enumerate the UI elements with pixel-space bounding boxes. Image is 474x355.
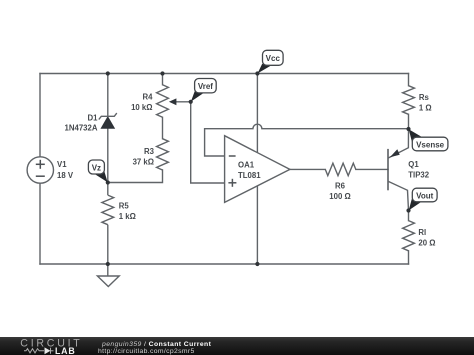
wire sense feedback with hop to inverting input <box>205 124 409 156</box>
node junction Vout <box>406 208 410 212</box>
resistor R3 <box>133 139 169 170</box>
resistor Rl <box>403 221 436 251</box>
wire zener branch lower <box>107 128 109 182</box>
wire Rl to bottom rail <box>408 251 410 264</box>
svg-text:100 Ω: 100 Ω <box>329 192 350 201</box>
svg-text:LAB: LAB <box>55 346 75 355</box>
svg-text:Rl: Rl <box>418 228 426 237</box>
node junction ground <box>106 262 110 266</box>
svg-text:R5: R5 <box>119 202 130 211</box>
svg-text:20 Ω: 20 Ω <box>418 239 435 248</box>
svg-text:Vout: Vout <box>416 191 434 200</box>
ground <box>97 264 119 287</box>
svg-text:TL081: TL081 <box>238 171 261 180</box>
resistor R5 <box>102 183 136 265</box>
svg-text:http://circuitlab.com/cp2smr5: http://circuitlab.com/cp2smr5 <box>98 348 195 355</box>
zener diode D1 <box>65 113 117 132</box>
voltage source V1 <box>27 157 74 183</box>
wire Vcc to op-amp V+ pin <box>256 74 258 153</box>
node junction Vz <box>106 180 110 184</box>
node junction top R4 <box>160 71 164 75</box>
svg-text:1N4732A: 1N4732A <box>65 123 98 132</box>
svg-text:Vsense: Vsense <box>416 140 445 149</box>
transistor Q1 <box>388 129 430 211</box>
wire R4-R3 link <box>162 117 164 138</box>
flag Vref <box>191 79 216 102</box>
wire op-amp output to R6 <box>290 168 325 170</box>
wire Rs top lead <box>408 74 410 86</box>
flag Vcc <box>258 50 284 73</box>
wire zener branch upper <box>107 74 109 117</box>
node junction Vsense <box>406 127 410 131</box>
svg-text:R6: R6 <box>335 181 346 190</box>
svg-text:18 V: 18 V <box>57 171 74 180</box>
svg-text:Vref: Vref <box>198 82 213 91</box>
node junction Vcc <box>255 71 259 75</box>
flag Vsense <box>409 129 448 151</box>
svg-text:TIP32: TIP32 <box>408 170 429 179</box>
svg-text:R3: R3 <box>144 147 155 156</box>
wire left rail lower <box>39 183 41 264</box>
wire bottom rail <box>40 263 409 265</box>
node junction top zener <box>106 71 110 75</box>
svg-text:Rs: Rs <box>419 93 430 102</box>
wire wiper to op-amp noninverting input <box>191 102 225 183</box>
wire collector to Rl <box>408 211 410 221</box>
svg-text:V1: V1 <box>57 160 67 169</box>
wire R6 to Q1 base <box>356 168 388 170</box>
resistor R6 <box>325 163 356 201</box>
wire Rs to Vsense node <box>408 114 410 129</box>
logo resistor-diode glyph <box>24 348 54 354</box>
flag Vout <box>409 188 437 210</box>
svg-text:penguin359 / Constant Current: penguin359 / Constant Current <box>101 341 212 348</box>
svg-text:37 kΩ: 37 kΩ <box>133 157 154 166</box>
node junction op-amp V- rail <box>255 262 259 266</box>
wire R3 bottom to node Vz <box>108 170 163 183</box>
wire R4 top lead <box>162 74 164 85</box>
potentiometer R4 <box>131 85 191 118</box>
footer bar <box>0 337 474 355</box>
svg-text:1 kΩ: 1 kΩ <box>119 212 136 221</box>
wire left rail upper <box>39 74 41 157</box>
svg-text:OA1: OA1 <box>238 160 255 169</box>
svg-text:1 Ω: 1 Ω <box>419 104 432 113</box>
op-amp OA1 <box>225 136 290 203</box>
svg-text:Q1: Q1 <box>408 160 419 169</box>
flag Vz <box>88 160 107 182</box>
svg-text:D1: D1 <box>88 113 99 122</box>
resistor Rs <box>403 86 432 115</box>
wire op-amp V- pin to bottom rail <box>256 186 258 264</box>
svg-text:Vz: Vz <box>92 164 101 173</box>
wire top rail <box>40 73 409 75</box>
svg-text:10 kΩ: 10 kΩ <box>131 103 152 112</box>
node junction Vref wiper <box>189 100 193 104</box>
svg-text:R4: R4 <box>143 92 154 101</box>
svg-text:Vcc: Vcc <box>266 54 281 63</box>
